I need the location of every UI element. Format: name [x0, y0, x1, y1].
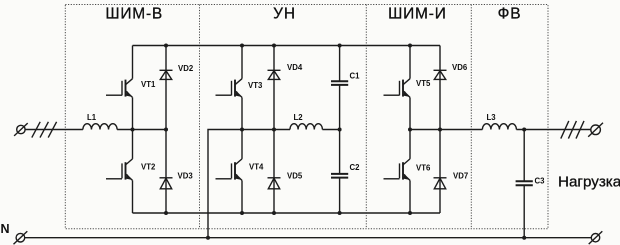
wire L1 to VD2 leg: [117, 129, 166, 131]
svg-text:Нагрузка: Нагрузка: [558, 173, 620, 190]
svg-text:VT1: VT1: [141, 80, 156, 89]
svg-text:ФВ: ФВ: [498, 5, 522, 22]
diode VD6: [434, 70, 447, 79]
svg-text:УН: УН: [273, 5, 296, 22]
junction dots top rail: [164, 44, 412, 48]
neutral wire: [25, 237, 591, 239]
svg-text:C1: C1: [350, 72, 361, 81]
svg-text:VD2: VD2: [178, 64, 194, 73]
transistor VT6: [384, 130, 411, 214]
terminal neutral right Ø: [589, 231, 603, 244]
diode VD4: [268, 70, 281, 79]
capacitor C1: [331, 46, 348, 130]
diode VD2: [160, 70, 173, 79]
svg-text:VD6: VD6: [452, 63, 468, 72]
svg-text:ШИМ-В: ШИМ-В: [105, 5, 163, 22]
bottom DC rail: [133, 212, 441, 214]
transistor VT2: [106, 130, 133, 214]
three-phase slashes input: [32, 122, 57, 138]
transistor VT5: [384, 46, 411, 130]
wire VD6/VD7 leg: [439, 46, 441, 214]
svg-text:VT6: VT6: [416, 164, 431, 173]
junction dots neutral wire: [206, 236, 526, 240]
svg-text:L1: L1: [87, 113, 97, 122]
svg-text:VD5: VD5: [287, 172, 303, 181]
top DC rail: [133, 45, 441, 47]
svg-text:VT5: VT5: [416, 79, 431, 88]
capacitor C2: [331, 130, 348, 214]
svg-text:N: N: [1, 222, 10, 236]
three-phase slashes output: [561, 121, 584, 139]
wire inverter midpoint to L3: [410, 129, 482, 131]
svg-text:VD3: VD3: [178, 172, 194, 181]
svg-text:L2: L2: [294, 113, 304, 122]
wire input to L1: [25, 129, 83, 131]
junction dots bottom rail: [164, 211, 412, 215]
diode VD7: [434, 178, 447, 189]
inductor L2: [290, 124, 322, 130]
svg-text:C3: C3: [535, 176, 546, 185]
terminal input phase Ø: [14, 123, 28, 136]
transistor VT4: [216, 130, 243, 214]
transistor VT1: [106, 46, 133, 130]
dotted enclosure ШИМ-В/УН/ШИМ-И/ФВ: [65, 5, 548, 229]
terminal output phase Ø: [588, 123, 603, 137]
svg-text:VT2: VT2: [141, 163, 156, 172]
wire VD2/VD3 leg: [165, 46, 167, 214]
transistor VT3: [216, 46, 243, 130]
svg-text:L3: L3: [487, 113, 497, 122]
diode VD3: [160, 178, 173, 189]
svg-text:VD7: VD7: [453, 172, 468, 181]
svg-text:VD4: VD4: [287, 63, 303, 72]
diode VD5: [268, 178, 281, 189]
capacitor C3: [516, 130, 533, 238]
wire УН midpoint to neutral: [208, 130, 242, 238]
junction dots midpoint wires: [131, 128, 527, 132]
wire L3 to output: [516, 129, 590, 131]
terminal neutral left Ø: [14, 231, 28, 244]
svg-text:ШИМ-И: ШИМ-И: [388, 5, 447, 22]
svg-text:C2: C2: [350, 163, 361, 172]
svg-text:VT3: VT3: [248, 81, 263, 90]
svg-text:VT4: VT4: [249, 163, 264, 172]
inductor L3: [482, 124, 516, 130]
wire УН midpoint: [242, 129, 290, 131]
wire VD4/VD5 leg: [273, 46, 275, 214]
wire L2 to C bank: [322, 129, 339, 131]
inductor L1: [83, 124, 117, 130]
